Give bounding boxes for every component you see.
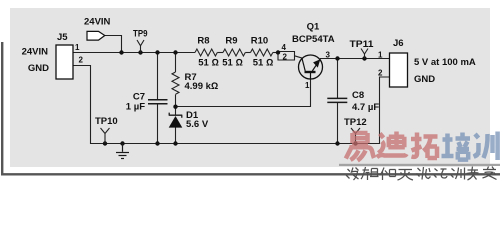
svg-text:24VIN: 24VIN [22, 47, 49, 58]
svg-text:4.99 kΩ: 4.99 kΩ [185, 81, 219, 92]
svg-text:1: 1 [305, 81, 310, 90]
svg-text:TP10: TP10 [95, 116, 118, 127]
svg-text:TP9: TP9 [133, 28, 148, 39]
svg-text:R8: R8 [197, 36, 209, 47]
svg-text:TP12: TP12 [344, 117, 367, 128]
svg-text:1 µF: 1 µF [126, 102, 145, 113]
svg-text:5 V at 100 mA: 5 V at 100 mA [414, 57, 476, 68]
svg-text:24VIN: 24VIN [84, 16, 111, 27]
svg-text:GND: GND [28, 63, 49, 74]
svg-text:4: 4 [282, 43, 287, 52]
svg-text:C8: C8 [352, 90, 364, 101]
svg-text:1: 1 [75, 43, 80, 52]
svg-text:3: 3 [326, 51, 331, 60]
svg-text:BCP54TA: BCP54TA [292, 34, 335, 45]
svg-text:51 Ω: 51 Ω [222, 58, 243, 69]
svg-text:Q1: Q1 [307, 22, 320, 33]
svg-text:GND: GND [414, 74, 435, 85]
svg-text:TP11: TP11 [350, 39, 375, 50]
svg-text:1: 1 [378, 51, 383, 60]
svg-text:2: 2 [378, 69, 383, 78]
svg-text:2: 2 [79, 56, 84, 65]
svg-text:5.6 V: 5.6 V [186, 119, 209, 130]
svg-text:R10: R10 [251, 36, 268, 47]
svg-text:J6: J6 [393, 38, 404, 49]
svg-text:J5: J5 [57, 32, 68, 43]
svg-text:2: 2 [283, 53, 288, 62]
svg-text:51 Ω: 51 Ω [253, 58, 274, 69]
svg-text:4.7 µF: 4.7 µF [352, 102, 379, 113]
svg-text:51 Ω: 51 Ω [198, 58, 219, 69]
svg-text:R9: R9 [225, 36, 237, 47]
